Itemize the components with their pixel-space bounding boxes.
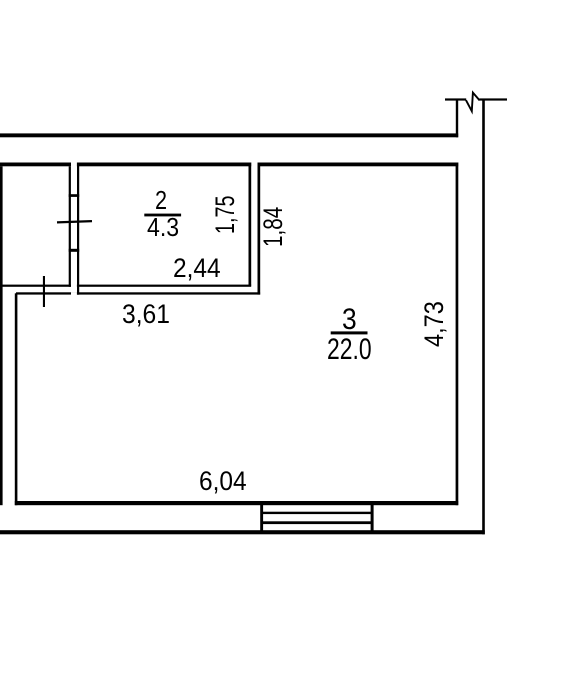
wall: rooms top edge right of gap [258,163,459,167]
fraction bar room 2 [144,214,181,217]
wall: rooms top edge left of gap [0,163,251,167]
dimension 6,04 [199,466,247,497]
wall: top-right thin outer line left segment [445,98,466,100]
wall void slit through line A [71,284,77,287]
wall: top-right thin outer line right segment [479,98,507,100]
window: inner line 1 [262,512,373,514]
wall: inner left wall of lower room [15,293,18,505]
dimension 4,73 (vertical) [419,301,450,347]
label: room 2 area 4.3 [147,214,179,243]
wall: top outer (thick) [0,133,458,137]
wall: room 2 left wall cross bar 1 [69,194,80,197]
wall: thin connector from break line down to top wall [456,100,458,138]
label: room 2 number [155,187,167,216]
dimension 2,44 [173,253,221,284]
wall: inner bottom (thick) [15,501,458,505]
window: left jamb [260,501,263,534]
wall: left edge (cut by image border) [0,166,3,505]
wall: outer right thin line [482,100,485,535]
dimension 3,61 [122,299,170,330]
label: room 3 number [342,303,357,337]
wall: outer bottom (thick) [0,530,485,534]
wall: room 2 left wall left line [69,166,71,286]
wall: line A below room 2 (top line) [0,285,251,287]
wall void slit through rooms-top edge above room 2 left wall [71,162,77,166]
tick: vertical break mark bottom-left wall [43,276,45,307]
label: room 3 area 22.0 [327,333,372,367]
wall: room 2 left wall right line [77,164,79,295]
wall void slit through line B [71,292,77,295]
dimension 1,75 (vertical) [210,196,241,235]
break symbol zigzag top-right [466,93,480,112]
wall: room 3 left wall [258,163,261,295]
tick: slanted break mark across room 2 left wall [57,220,92,224]
wall: line B below room 2 (bottom line) [16,292,260,294]
dimension 1,84 (vertical) [258,206,289,246]
wall: right wall of room 3 [456,163,459,506]
window: right jamb [371,501,374,534]
wall: room 2 left wall cross bar 2 [69,249,80,252]
wall: room 2 right wall [249,163,252,286]
fraction bar room 3 [331,331,368,334]
window: inner line 2 [262,521,373,524]
